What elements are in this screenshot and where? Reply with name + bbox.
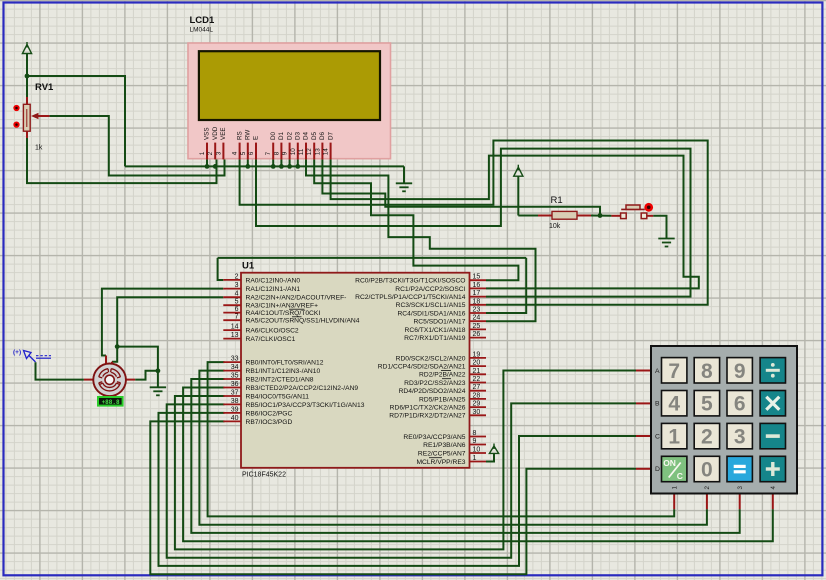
- svg-text:RC5/SDO1/AN17: RC5/SDO1/AN17: [413, 319, 465, 326]
- svg-text:RA1/C12IN1-/AN1: RA1/C12IN1-/AN1: [246, 286, 301, 293]
- svg-text:34: 34: [231, 364, 239, 371]
- svg-text:RC4/SDI1/SDA1/AN16: RC4/SDI1/SDA1/AN16: [397, 310, 465, 317]
- svg-text:5: 5: [235, 299, 239, 306]
- svg-text:LM044L: LM044L: [190, 27, 214, 34]
- svg-text:2: 2: [704, 486, 711, 490]
- svg-text:2: 2: [207, 151, 214, 155]
- svg-text:10: 10: [290, 148, 297, 156]
- svg-text:3: 3: [215, 151, 222, 155]
- svg-text:9: 9: [282, 151, 289, 155]
- svg-text:LCD1: LCD1: [190, 15, 216, 26]
- svg-text:1k: 1k: [35, 145, 43, 152]
- svg-text:40: 40: [231, 415, 239, 422]
- svg-text:3: 3: [235, 282, 239, 289]
- svg-text:4: 4: [668, 393, 680, 416]
- svg-text:RE1/P3B/AN6: RE1/P3B/AN6: [423, 442, 466, 449]
- svg-text:RD5/P1B/AN25: RD5/P1B/AN25: [419, 396, 466, 403]
- svg-text:RD7/P1D/RX2/DT2/AN27: RD7/P1D/RX2/DT2/AN27: [389, 413, 465, 420]
- svg-text:RA5/C2OUT/SRNQ/SS1/HLVDIN/AN4: RA5/C2OUT/SRNQ/SS1/HLVDIN/AN4: [246, 318, 360, 325]
- svg-text:RB7/IOC3/PGD: RB7/IOC3/PGD: [246, 419, 293, 426]
- svg-text:RC6/TX1/CK1/AN18: RC6/TX1/CK1/AN18: [405, 327, 466, 334]
- svg-text:RB0/INT0/FLT0/SRI/AN12: RB0/INT0/FLT0/SRI/AN12: [246, 360, 324, 367]
- svg-text:RD6/P1C/TX2/CK2/AN26: RD6/P1C/TX2/CK2/AN26: [390, 405, 466, 412]
- svg-text:36: 36: [231, 381, 239, 388]
- svg-text:D3: D3: [295, 131, 302, 140]
- svg-text:10k: 10k: [549, 223, 561, 230]
- svg-text:RA7/CLKI/OSC1: RA7/CLKI/OSC1: [246, 336, 296, 343]
- svg-text:39: 39: [231, 406, 239, 413]
- svg-text:RA3/C1IN+/AN3/VREF+: RA3/C1IN+/AN3/VREF+: [246, 303, 319, 310]
- svg-text:4: 4: [232, 151, 239, 155]
- svg-text:RD2/P2B/AN22: RD2/P2B/AN22: [419, 372, 466, 379]
- svg-text:RV1: RV1: [35, 82, 54, 93]
- svg-text:33: 33: [231, 356, 239, 363]
- svg-text:10: 10: [473, 447, 481, 454]
- svg-text:4: 4: [235, 291, 239, 298]
- svg-text:RC1/P2A/CCP2/SOSCI: RC1/P2A/CCP2/SOSCI: [395, 286, 465, 293]
- svg-text:RD0/SCK2/SCL2/AN20: RD0/SCK2/SCL2/AN20: [396, 355, 466, 362]
- svg-text:A: A: [655, 368, 660, 375]
- svg-text:RB6/IOC2/PGC: RB6/IOC2/PGC: [246, 410, 293, 417]
- svg-text:ON: ON: [663, 458, 676, 468]
- svg-text:1: 1: [199, 151, 206, 155]
- svg-text:RA2/C2IN+/AN2/DACOUT/VREF-: RA2/C2IN+/AN2/DACOUT/VREF-: [246, 295, 347, 302]
- svg-text:9: 9: [734, 360, 746, 383]
- svg-text:VDD: VDD: [212, 126, 219, 140]
- svg-text:6: 6: [248, 151, 255, 155]
- svg-text:9: 9: [473, 438, 477, 445]
- svg-text:RB4/IOC0/T5G/AN11: RB4/IOC0/T5G/AN11: [246, 393, 310, 400]
- svg-text:28: 28: [473, 392, 481, 399]
- svg-text:RA6/CLKO/OSC2: RA6/CLKO/OSC2: [246, 328, 299, 335]
- svg-text:14: 14: [323, 148, 330, 156]
- svg-text:1: 1: [473, 455, 477, 462]
- svg-text:E: E: [253, 136, 260, 140]
- svg-text:7: 7: [668, 360, 680, 383]
- svg-text:30: 30: [473, 409, 481, 416]
- svg-text:PIC18F45K22: PIC18F45K22: [242, 472, 286, 479]
- svg-text:38: 38: [231, 398, 239, 405]
- svg-text:8: 8: [701, 360, 713, 383]
- svg-text:D: D: [655, 466, 660, 473]
- svg-text:RE2/CCP5/AN7: RE2/CCP5/AN7: [418, 450, 466, 457]
- svg-text:37: 37: [231, 390, 239, 397]
- svg-text:RC2/CTPLS/P1A/CCP1/T5CKI/AN14: RC2/CTPLS/P1A/CCP1/T5CKI/AN14: [355, 294, 466, 301]
- svg-text:16: 16: [473, 282, 481, 289]
- svg-text:2: 2: [701, 426, 713, 449]
- svg-text:D7: D7: [327, 131, 334, 140]
- svg-text:C: C: [655, 433, 660, 440]
- svg-text:21: 21: [473, 368, 481, 375]
- svg-text:4: 4: [770, 486, 777, 490]
- svg-text:29: 29: [473, 401, 481, 408]
- svg-text:RB3/CTED2/P2A/CCP2/C12IN2-/AN9: RB3/CTED2/P2A/CCP2/C12IN2-/AN9: [246, 385, 359, 392]
- svg-text:26: 26: [473, 331, 481, 338]
- svg-text:RW: RW: [245, 130, 252, 140]
- svg-text:C: C: [677, 471, 683, 481]
- svg-text:25: 25: [473, 323, 481, 330]
- svg-text:11: 11: [298, 148, 305, 155]
- svg-text:D6: D6: [319, 131, 326, 140]
- svg-text:14: 14: [231, 324, 239, 331]
- svg-text:6: 6: [235, 306, 239, 313]
- svg-text:RB1/INT1/C12IN3-/AN10: RB1/INT1/C12IN3-/AN10: [246, 368, 321, 375]
- svg-text:24: 24: [473, 315, 481, 322]
- svg-text:6: 6: [734, 393, 746, 416]
- svg-text:7: 7: [235, 314, 239, 321]
- svg-text:VEE: VEE: [220, 127, 227, 140]
- svg-text:1: 1: [671, 486, 678, 490]
- svg-text:0: 0: [701, 459, 713, 482]
- svg-text:D0: D0: [270, 131, 277, 140]
- svg-text:8: 8: [473, 430, 477, 437]
- svg-text:3: 3: [734, 426, 746, 449]
- svg-text:RA4/C1OUT/SRQ/T0CKI: RA4/C1OUT/SRQ/T0CKI: [246, 310, 321, 317]
- svg-text:U1: U1: [242, 261, 255, 272]
- svg-text:VSS: VSS: [204, 127, 211, 140]
- svg-text:19: 19: [473, 351, 481, 358]
- svg-text:D1: D1: [278, 131, 285, 140]
- svg-text:RB2/INT2/CTED1/AN8: RB2/INT2/CTED1/AN8: [246, 376, 314, 383]
- svg-text:2: 2: [235, 273, 239, 280]
- svg-text:+88.8: +88.8: [102, 399, 120, 406]
- svg-text:B: B: [655, 401, 660, 408]
- svg-text:27: 27: [473, 384, 481, 391]
- svg-text:5: 5: [240, 151, 247, 155]
- svg-text:35: 35: [231, 373, 239, 380]
- svg-text:RD1/CCP4/SDI2/SDA2/AN21: RD1/CCP4/SDI2/SDA2/AN21: [378, 364, 466, 371]
- svg-text:13: 13: [314, 148, 321, 156]
- svg-text:MCLR/VPP/RE3: MCLR/VPP/RE3: [416, 459, 465, 466]
- svg-text:D4: D4: [303, 131, 310, 140]
- svg-text:D2: D2: [286, 131, 293, 140]
- svg-text:13: 13: [231, 332, 239, 339]
- svg-text:18: 18: [473, 298, 481, 305]
- svg-text:RD3/P2C/SS2/AN23: RD3/P2C/SS2/AN23: [404, 380, 466, 387]
- svg-text:RD4/P2D/SDO2/AN24: RD4/P2D/SDO2/AN24: [399, 388, 466, 395]
- svg-text:23: 23: [473, 307, 481, 314]
- svg-text:RE0/P3A/CCP3/AN5: RE0/P3A/CCP3/AN5: [403, 434, 465, 441]
- svg-text:D5: D5: [311, 131, 318, 140]
- svg-text:20: 20: [473, 360, 481, 367]
- svg-text:RS: RS: [236, 131, 243, 140]
- svg-text:7: 7: [265, 151, 272, 155]
- svg-text:1: 1: [668, 426, 680, 449]
- svg-text:(+): (+): [13, 349, 21, 356]
- svg-text:RC7/RX1/DT1/AN19: RC7/RX1/DT1/AN19: [404, 335, 466, 342]
- svg-text:17: 17: [473, 290, 481, 297]
- svg-text:R1: R1: [551, 195, 563, 206]
- svg-text:RC0/P2B/T3CKI/T3G/T1CKI/SOSCO: RC0/P2B/T3CKI/T3G/T1CKI/SOSCO: [355, 278, 465, 285]
- svg-text:22: 22: [473, 376, 481, 383]
- svg-text:RC3/SCK1/SCL1/AN15: RC3/SCK1/SCL1/AN15: [396, 302, 466, 309]
- svg-text:3: 3: [737, 486, 744, 490]
- svg-text:12: 12: [306, 148, 313, 156]
- svg-text:5: 5: [701, 393, 713, 416]
- svg-text:15: 15: [473, 274, 481, 281]
- svg-text:RB5/IOC1/P3A/CCP3/T3CKI/T1G/AN: RB5/IOC1/P3A/CCP3/T3CKI/T1G/AN13: [246, 402, 365, 409]
- svg-text:RA0/C12IN0-/AN0: RA0/C12IN0-/AN0: [246, 277, 301, 284]
- svg-text:8: 8: [273, 151, 280, 155]
